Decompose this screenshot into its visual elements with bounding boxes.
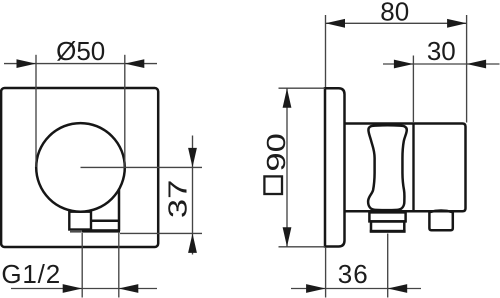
dimension 80: right arrowhead (inside, pointing right) — [447, 19, 467, 28]
dimension 90: bottom arrowhead (pointing down) — [283, 227, 292, 247]
dimension G1/2: right extension line — [118, 232, 120, 298]
body divider line — [412, 124, 414, 212]
svg-text:36: 36 — [338, 259, 369, 289]
wall plate side profile — [325, 88, 345, 246]
dimension 80/30: right extension line — [466, 15, 468, 123]
dimension G1/2: right arrowhead — [119, 284, 139, 293]
dimension 30: left arrowhead (outside, pointing right) — [394, 60, 414, 69]
dimension 37: bottom arrowhead — [188, 233, 197, 253]
dimension Ø50: left arrowhead — [17, 59, 37, 68]
holder body outline — [345, 124, 466, 212]
svg-text:37: 37 — [163, 180, 192, 218]
dimension G1/2: left arrowhead — [63, 284, 82, 293]
holder boss circle Ø50 — [36, 123, 125, 212]
svg-text:30: 30 — [427, 36, 456, 66]
dimension 37: dimension line — [192, 136, 194, 255]
dimension 90: top arrowhead (pointing up) — [283, 88, 292, 108]
dimension 37: bottom extension line — [120, 232, 202, 234]
dimension 80: left extension line — [325, 15, 327, 87]
dimension Ø50: right arrowhead — [125, 59, 145, 68]
dimension Ø50: dimension line — [4, 63, 157, 65]
dimension 90: top extension line — [279, 87, 326, 89]
dimension 80: left arrowhead (inside, pointing left) — [326, 19, 346, 28]
dimension 30: right arrowhead (outside, pointing left) — [467, 60, 487, 69]
dimension 37: top arrowhead — [188, 148, 197, 168]
svg-text:80: 80 — [380, 0, 409, 27]
dimension 90: square symbol — [264, 176, 282, 194]
check valve tab — [429, 211, 452, 231]
dimension 80: dimension line — [326, 22, 467, 24]
outlet flange (side view) — [369, 212, 405, 221]
dimension 36: right arrowhead — [388, 284, 408, 293]
svg-text:G1/2: G1/2 — [1, 259, 61, 289]
dimension G1/2: dimension line — [11, 288, 157, 290]
dimension 90: bottom extension line — [279, 246, 326, 248]
outlet thick base bar — [82, 229, 120, 232]
svg-text:90: 90 — [262, 133, 291, 171]
svg-text:Ø50: Ø50 — [56, 36, 105, 66]
outlet nut (side view) — [371, 221, 404, 231]
dimension 36: left extension line (plate edge continuation) — [325, 247, 327, 298]
dimension G1/2: left extension line — [81, 233, 83, 298]
dimension 90: dimension line — [286, 88, 288, 247]
dimension 36: left arrowhead — [306, 284, 326, 293]
outlet thick bottom edge — [370, 230, 406, 233]
dimension 30: dimension line — [383, 63, 500, 65]
centerline through circle — [81, 166, 203, 168]
KEUCO micro text — [70, 230, 82, 233]
dimension 36: dimension line — [291, 288, 421, 290]
dimension Ø50: left extension line — [35, 55, 37, 167]
outlet step top edge — [91, 219, 120, 222]
dimension 36: right extension line — [387, 234, 389, 298]
dimension Ø50: right extension line — [124, 55, 126, 167]
wall plate front (square escutcheon) — [1, 88, 158, 247]
holder bracket square — [69, 212, 91, 230]
handle profile (hand shower holder) — [368, 125, 407, 210]
outlet step right edge — [118, 190, 121, 232]
dimension 30: left extension line — [412, 56, 414, 124]
